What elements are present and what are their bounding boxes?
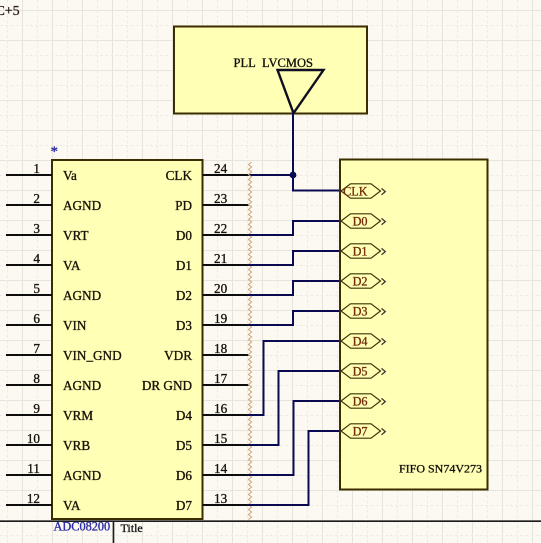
svg-text:9: 9 (33, 401, 40, 416)
svg-text:D0: D0 (353, 214, 368, 228)
svg-text:2: 2 (33, 191, 40, 206)
wire net D6: ADC pin to D6 port (248, 401, 341, 475)
svg-text:PD: PD (175, 198, 192, 213)
port D2 (341, 274, 385, 289)
pin 21 (D1) of U2 (176, 251, 249, 273)
pin 18 (VDR) of U2 (164, 341, 248, 363)
svg-text:D4: D4 (176, 408, 193, 423)
svg-text:17: 17 (214, 371, 228, 386)
component U1 PLL clock source body (174, 27, 367, 114)
svg-text:D7: D7 (353, 424, 368, 438)
svg-text:D4: D4 (353, 334, 368, 348)
svg-text:D6: D6 (176, 468, 193, 483)
svg-text:11: 11 (27, 461, 40, 476)
svg-text:1: 1 (33, 161, 40, 176)
pin 20 (D2) of U2 (176, 281, 249, 303)
svg-text:23: 23 (214, 191, 228, 206)
buffer triangle U1 clock output driver (278, 70, 324, 113)
svg-text:7: 7 (33, 341, 40, 356)
svg-text:12: 12 (27, 491, 40, 506)
svg-text:D5: D5 (176, 438, 193, 453)
zigzag compile-mask line (248, 162, 251, 520)
svg-text:4: 4 (33, 251, 40, 266)
pin 24 (CLK) of U2 (166, 161, 249, 183)
svg-text:8: 8 (33, 371, 40, 386)
pin 10 (VRB) of U2 (6, 431, 90, 453)
pin 3 (VRT) of U2 (6, 221, 89, 243)
wire net D5: ADC pin to D5 port (248, 371, 341, 445)
junction dot CLK node (290, 172, 297, 179)
svg-text:AGND: AGND (63, 378, 101, 393)
svg-text:D2: D2 (353, 274, 368, 288)
pin 5 (AGND) of U2 (6, 281, 101, 303)
svg-text:14: 14 (214, 461, 228, 476)
svg-text:18: 18 (214, 341, 228, 356)
svg-text:CLK: CLK (343, 184, 368, 198)
svg-text:VDR: VDR (164, 348, 192, 363)
svg-text:D3: D3 (353, 304, 368, 318)
svg-text:CLK: CLK (166, 168, 193, 183)
component U3 FIFO SN74V273 body (340, 160, 488, 490)
svg-text:D3: D3 (176, 318, 193, 333)
svg-text:AGND: AGND (63, 288, 101, 303)
svg-text:AGND: AGND (63, 468, 101, 483)
svg-text:6: 6 (33, 311, 40, 326)
wire CLK net: buffer output down to CLK port (293, 113, 341, 191)
pin 22 (D0) of U2 (176, 221, 249, 243)
svg-text:Title: Title (121, 521, 143, 535)
pin 6 (VIN) of U2 (6, 311, 87, 333)
svg-text:5: 5 (33, 281, 40, 296)
pin 11 (AGND) of U2 (6, 461, 101, 483)
svg-text:FIFO SN74V273: FIFO SN74V273 (399, 462, 482, 476)
svg-text:D0: D0 (176, 228, 193, 243)
svg-text:15: 15 (214, 431, 228, 446)
svg-text:D1: D1 (176, 258, 192, 273)
pin 7 (VIN_GND) of U2 (6, 341, 122, 363)
svg-text:13: 13 (214, 491, 228, 506)
svg-text:D1: D1 (353, 244, 368, 258)
svg-text:Va: Va (63, 168, 77, 183)
svg-text:16: 16 (214, 401, 228, 416)
wire net D4: ADC pin to D4 port (248, 341, 341, 415)
port D7 (341, 424, 385, 439)
pin 4 (VA) of U2 (6, 251, 81, 273)
pin 13 (D7) of U2 (176, 491, 249, 513)
title block horizontal line (0, 520, 541, 522)
port CLK (341, 184, 385, 199)
port D5 (341, 364, 385, 379)
pin 12 (VA) of U2 (6, 491, 81, 513)
svg-text:D5: D5 (353, 364, 368, 378)
svg-text:10: 10 (27, 431, 41, 446)
pin 1 (Va) of U2 (6, 161, 77, 183)
svg-text:ADC08200: ADC08200 (54, 520, 111, 534)
svg-text:D2: D2 (176, 288, 192, 303)
wire net D1: ADC pin to D1 port (248, 251, 341, 265)
pin 8 (AGND) of U2 (6, 371, 101, 393)
svg-text:3: 3 (33, 221, 40, 236)
wire CLK net: pin 24 to junction (248, 174, 293, 176)
svg-text:VRM: VRM (63, 408, 93, 423)
svg-text:VCC+5: VCC+5 (0, 4, 20, 19)
svg-text:PLL LVCMOS: PLL LVCMOS (234, 56, 313, 70)
port D3 (341, 304, 385, 319)
pin 9 (VRM) of U2 (6, 401, 93, 423)
port D1 (341, 244, 385, 258)
pin 19 (D3) of U2 (176, 311, 249, 333)
wire net D0: ADC pin to D0 port (248, 221, 341, 235)
pin 15 (D5) of U2 (176, 431, 249, 453)
pin 2 (AGND) of U2 (6, 191, 101, 213)
pin 14 (D6) of U2 (176, 461, 249, 483)
svg-text:DR GND: DR GND (142, 378, 192, 393)
wire net D3: ADC pin to D3 port (248, 311, 341, 325)
port D0 (341, 214, 385, 229)
pin 17 (DR GND) of U2 (142, 371, 249, 393)
svg-text:20: 20 (214, 281, 228, 296)
svg-text:VRT: VRT (63, 228, 89, 243)
pin 16 (D4) of U2 (176, 401, 249, 423)
port D4 (341, 334, 385, 349)
svg-text:VA: VA (63, 498, 81, 513)
svg-text:VA: VA (63, 258, 81, 273)
svg-text:VRB: VRB (63, 438, 90, 453)
wire net D2: ADC pin to D2 port (248, 281, 341, 295)
pin 23 (PD) of U2 (175, 191, 248, 213)
component U2 ADC08200 body (52, 160, 203, 519)
wire net D7: ADC pin to D7 port (248, 431, 341, 505)
title block vertical divider (113, 521, 115, 543)
svg-text:19: 19 (214, 311, 228, 326)
svg-text:VIN: VIN (63, 318, 87, 333)
svg-text:D6: D6 (353, 394, 368, 408)
svg-text:D7: D7 (176, 498, 193, 513)
svg-text:21: 21 (214, 251, 227, 266)
svg-text:VIN_GND: VIN_GND (63, 348, 122, 363)
svg-text:*: * (51, 144, 59, 160)
port D6 (341, 394, 385, 409)
svg-text:22: 22 (214, 221, 227, 236)
svg-text:24: 24 (214, 161, 228, 176)
svg-text:AGND: AGND (63, 198, 101, 213)
